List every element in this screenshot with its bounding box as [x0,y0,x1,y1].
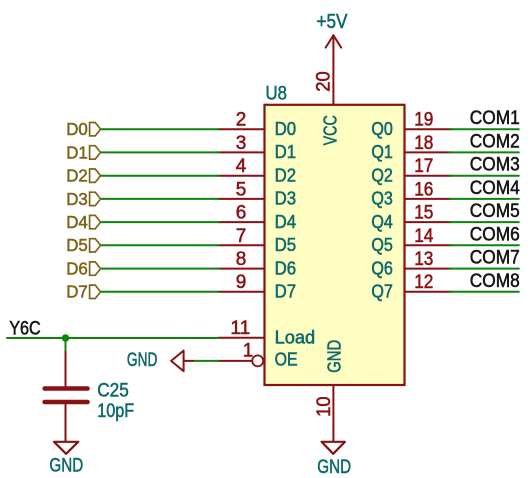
svg-text:Q5: Q5 [371,235,393,255]
label COM3 [470,155,520,176]
pin name D1 [275,142,297,162]
pin 14 stub (Q5) [405,244,452,246]
pin name Q4 [371,212,393,232]
pin name OE [275,349,298,369]
svg-text:VCC: VCC [321,115,341,145]
hierarchical label D4 [66,212,100,232]
pin name Q7 [371,282,393,302]
svg-text:COM3: COM3 [470,155,520,176]
wire COM4 [450,198,519,200]
pin 5 stub (D3) [218,198,265,200]
pin name GND (U8) [324,340,344,373]
value label C25 [97,380,129,402]
wire OE [193,360,219,362]
pin number 5 [236,179,247,200]
svg-text:Q4: Q4 [371,212,393,232]
svg-text:COM5: COM5 [470,201,520,222]
svg-text:Load: Load [275,328,316,348]
power symbol +5V [326,35,342,58]
hierarchical label D5 [66,235,100,255]
wire D3 [101,198,219,200]
reference U8 [266,82,287,104]
svg-text:GND: GND [49,455,83,477]
hierarchical label D0 [66,119,100,139]
value label 10pF [97,400,134,422]
wire D6 [101,268,219,270]
svg-text:10: 10 [314,396,335,417]
svg-text:7: 7 [236,226,247,247]
svg-text:U8: U8 [266,82,287,104]
pin 6 stub (D4) [218,221,265,223]
pin number 14 [414,226,434,247]
wire D5 [101,244,219,246]
svg-text:COM4: COM4 [470,178,520,199]
pin name Q6 [371,258,393,278]
pin 4 stub (D2) [218,175,265,177]
svg-text:COM7: COM7 [470,248,520,269]
label Y6C [9,318,41,339]
ground label GND (C25) [49,455,83,477]
svg-text:Y6C: Y6C [9,318,41,339]
wire COM2 [450,151,519,153]
hierarchical label D1 [66,142,100,162]
wire COM8 [450,291,519,293]
svg-text:3: 3 [236,133,247,154]
pin name D5 [275,235,297,255]
svg-text:19: 19 [414,110,433,131]
svg-text:COM2: COM2 [470,131,520,152]
svg-text:D1: D1 [66,142,88,162]
svg-text:COM8: COM8 [470,271,520,292]
pin 17 stub (Q2) [405,175,452,177]
wire D4 [101,221,219,223]
svg-text:D0: D0 [66,119,88,139]
label COM2 [470,131,520,152]
pin name Load [275,328,316,348]
pin number 15 [414,203,433,224]
svg-text:D4: D4 [66,212,88,232]
pin name D0 [275,119,297,139]
pin name Q3 [371,189,393,209]
hierarchical label D3 [66,189,100,209]
wire Y6C [7,337,219,339]
pin 10 stub (GND) [332,385,334,431]
svg-text:GND: GND [317,456,351,478]
svg-text:Q0: Q0 [371,119,393,139]
hierarchical label D7 [66,282,100,302]
svg-text:D6: D6 [275,258,297,278]
pin number 20 [314,71,335,92]
hierarchical label D2 [66,166,100,186]
svg-text:D1: D1 [275,142,297,162]
pin number 7 [236,226,247,247]
pin number 18 [414,133,433,154]
label COM8 [470,271,520,292]
svg-text:17: 17 [414,156,433,177]
pin name Q5 [371,235,393,255]
svg-text:12: 12 [414,272,433,293]
pin name VCC [321,115,341,145]
pin number 9 [236,272,247,293]
power symbol GND (at OE) [171,351,193,372]
svg-text:13: 13 [414,249,433,270]
pin 12 stub (Q7) [405,291,452,293]
capacitor C25 [45,352,88,442]
svg-text:10pF: 10pF [97,400,134,422]
svg-text:20: 20 [314,71,335,92]
label COM7 [470,248,520,269]
pin 9 stub (D7) [218,291,265,293]
pin number 1 [243,341,254,362]
pin name D2 [275,165,297,185]
svg-text:GND: GND [127,349,158,371]
pin number 11 [230,318,250,339]
svg-text:Q2: Q2 [371,165,393,185]
label COM6 [470,224,520,245]
power label GND (at OE) [127,349,158,371]
svg-text:11: 11 [230,318,250,339]
svg-text:15: 15 [414,203,433,224]
svg-text:8: 8 [236,249,247,270]
pin 11 stub (Load) [218,337,265,339]
svg-text:Q1: Q1 [371,142,393,162]
pin number 12 [414,272,433,293]
pin number 8 [236,249,247,270]
wire COM7 [450,268,519,270]
svg-text:D4: D4 [275,212,297,232]
ground symbol (C25) [54,442,78,454]
svg-text:D2: D2 [275,165,297,185]
svg-text:GND: GND [324,340,344,373]
pin 13 stub (Q6) [405,268,452,270]
hierarchical label D6 [66,259,100,279]
wire D0 [101,128,219,130]
pin 20 stub (VCC) [332,58,334,105]
wire D1 [101,151,219,153]
svg-text:4: 4 [236,156,247,177]
pin number 4 [236,156,247,177]
svg-text:+5V: +5V [317,10,348,33]
svg-text:14: 14 [414,226,434,247]
pin number 19 [414,110,433,131]
label COM5 [470,201,520,222]
pin name D7 [275,282,297,302]
svg-text:Q7: Q7 [371,282,393,302]
pin number 10 [314,396,335,417]
pin 18 stub (Q1) [405,151,452,153]
svg-text:C25: C25 [97,380,129,402]
svg-text:16: 16 [414,179,433,200]
pin 16 stub (Q3) [405,198,452,200]
svg-text:18: 18 [414,133,433,154]
ground label GND (pin 10) [317,456,351,478]
pin number 17 [414,156,433,177]
svg-text:COM1: COM1 [470,108,520,129]
pin number 6 [236,203,247,224]
svg-text:1: 1 [243,341,254,362]
pin 19 stub (Q0) [405,128,452,130]
wire D2 [101,175,219,177]
pin number 16 [414,179,433,200]
svg-text:D7: D7 [275,282,297,302]
pin number 3 [236,133,247,154]
pin 7 stub (D5) [218,244,265,246]
svg-text:6: 6 [236,203,247,224]
svg-text:D5: D5 [66,235,88,255]
ground symbol (pin 10) [322,431,345,454]
svg-text:D5: D5 [275,235,297,255]
svg-text:OE: OE [275,349,298,369]
svg-text:D3: D3 [66,189,88,209]
svg-text:D6: D6 [66,259,88,279]
svg-text:5: 5 [236,179,247,200]
wire COM1 [450,128,519,130]
symbol U8 body [265,105,405,385]
pin 2 stub (D0) [218,128,265,130]
label COM1 [470,108,520,129]
power label +5V [317,10,348,33]
svg-text:Q3: Q3 [371,189,393,209]
pin name Q2 [371,165,393,185]
pin 3 stub (D1) [218,151,265,153]
svg-text:Q6: Q6 [371,258,393,278]
junction Y6C [62,334,70,342]
pin name D4 [275,212,297,232]
svg-text:COM6: COM6 [470,224,520,245]
pin 15 stub (Q4) [405,221,452,223]
pin 1 stub (OE) [218,355,264,366]
wire junction to C25 [65,338,67,352]
svg-text:2: 2 [236,110,247,131]
svg-text:D3: D3 [275,189,297,209]
pin number 2 [236,110,247,131]
wire COM5 [450,221,519,223]
svg-text:D7: D7 [66,282,88,302]
pin name Q0 [371,119,393,139]
wire COM6 [450,244,519,246]
label COM4 [470,178,520,199]
svg-text:D0: D0 [275,119,297,139]
pin number 13 [414,249,433,270]
pin name D6 [275,258,297,278]
svg-text:9: 9 [236,272,247,293]
svg-text:D2: D2 [66,166,88,186]
pin name Q1 [371,142,393,162]
wire COM3 [450,175,519,177]
pin 8 stub (D6) [218,268,265,270]
wire D7 [101,291,219,293]
pin name D3 [275,189,297,209]
